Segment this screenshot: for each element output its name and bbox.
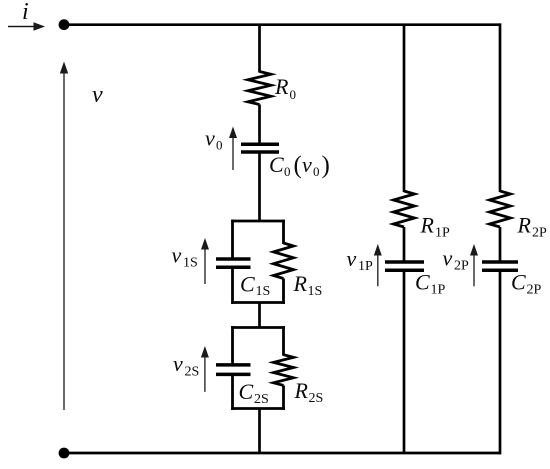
- svg-text:0: 0: [216, 138, 223, 153]
- wire: box2 left leg upper: [231, 326, 234, 364]
- node: top-left terminal: [59, 19, 70, 30]
- svg-text:1S: 1S: [183, 256, 198, 271]
- svg-text:2P: 2P: [454, 259, 469, 274]
- label R2P: [517, 213, 548, 241]
- voltage arrow v0: [229, 127, 237, 171]
- wire: box2 right leg upper: [282, 326, 285, 356]
- svg-text:1S: 1S: [256, 284, 271, 299]
- node: bottom-left terminal: [59, 448, 70, 459]
- svg-text:v: v: [347, 246, 357, 271]
- svg-text:2P: 2P: [527, 283, 542, 298]
- svg-text:v: v: [302, 152, 312, 177]
- wire: main branch top (rail to R0): [258, 25, 261, 73]
- svg-text:C: C: [240, 272, 255, 297]
- wire: R1P to C1P: [403, 227, 406, 261]
- svg-text:v: v: [173, 351, 183, 376]
- svg-text:C: C: [511, 270, 526, 295]
- wire: top rail: [64, 23, 500, 26]
- voltage arrow v2S: [201, 346, 209, 392]
- label C0(v0): [269, 152, 330, 179]
- svg-text:2S: 2S: [309, 391, 324, 406]
- svg-text:R: R: [517, 213, 532, 238]
- capacitor C0: [241, 144, 279, 152]
- svg-text:C: C: [239, 379, 254, 404]
- wire: C1P to bottom rail: [403, 270, 406, 453]
- svg-text:2S: 2S: [254, 392, 269, 407]
- capacitor C1S: [216, 259, 251, 267]
- wire: box2 right leg lower: [282, 385, 285, 410]
- label v: [92, 82, 103, 108]
- svg-text:v: v: [205, 126, 215, 151]
- svg-text:R: R: [274, 74, 289, 99]
- wire: branch 2P top (rail corner to R2P): [499, 23, 502, 192]
- voltage arrow v: [60, 62, 68, 411]
- voltage arrow v2P: [470, 244, 478, 286]
- svg-text:C: C: [415, 270, 430, 295]
- resistor R0: [248, 72, 271, 105]
- wire: box1 left leg lower: [231, 268, 234, 304]
- label R1S: [293, 271, 323, 299]
- svg-text:2P: 2P: [532, 226, 547, 241]
- wire: C0 to box1: [258, 152, 261, 221]
- wire: box2 top bar: [231, 326, 285, 329]
- wire: box1 to box2: [258, 303, 261, 328]
- label v2P: [443, 246, 470, 274]
- wire: box2 bottom bar: [231, 407, 285, 410]
- svg-text:1S: 1S: [308, 284, 323, 299]
- current arrow i: [8, 22, 45, 31]
- svg-text:R: R: [293, 271, 308, 296]
- label C1S: [240, 272, 270, 300]
- svg-text:R: R: [294, 378, 309, 403]
- resistor R1S: [274, 243, 294, 279]
- wire: box1 bottom bar: [231, 301, 285, 304]
- label v2S: [173, 351, 199, 380]
- wire: box1 left leg upper: [231, 220, 234, 258]
- resistor R2P: [490, 191, 511, 227]
- svg-text:0: 0: [313, 164, 320, 179]
- svg-text:1P: 1P: [435, 226, 450, 241]
- label C2S: [239, 379, 269, 407]
- wire: box1 right leg upper: [282, 220, 285, 244]
- label i: [22, 0, 29, 25]
- svg-text:v: v: [172, 243, 182, 268]
- svg-text:i: i: [22, 0, 29, 25]
- wire: R2P to C2P: [499, 227, 502, 261]
- label R1P: [420, 213, 451, 241]
- wire: box2 left leg lower: [231, 375, 234, 410]
- resistor R1P: [394, 191, 415, 227]
- svg-text:v: v: [92, 82, 103, 108]
- svg-text:0: 0: [290, 87, 297, 102]
- label C2P: [511, 270, 542, 298]
- voltage arrow v1S: [201, 238, 209, 284]
- svg-text:0: 0: [284, 164, 291, 179]
- svg-text:C: C: [269, 152, 284, 177]
- capacitor C2P: [482, 262, 518, 270]
- capacitor C1P: [385, 262, 424, 270]
- wire: bottom rail: [64, 452, 500, 455]
- svg-text:1P: 1P: [358, 259, 373, 274]
- wire: box2 to bottom rail: [258, 409, 261, 454]
- label R2S: [294, 378, 324, 406]
- wire: box1 right leg lower: [282, 279, 285, 304]
- svg-text:v: v: [443, 246, 453, 271]
- wire: branch 1P top (rail to R1P): [403, 25, 406, 192]
- svg-text:1P: 1P: [431, 283, 446, 298]
- wire: box1 top bar: [231, 220, 285, 223]
- wire: R0 to C0: [258, 105, 261, 143]
- voltage arrow v1P: [374, 244, 382, 286]
- svg-text:R: R: [420, 213, 435, 238]
- label R0: [274, 74, 296, 102]
- label v0: [205, 126, 223, 153]
- svg-text:): ): [322, 152, 330, 179]
- wire: C2P to bottom rail: [499, 270, 502, 454]
- label C1P: [415, 270, 446, 298]
- svg-text:2S: 2S: [185, 365, 200, 380]
- svg-text:(: (: [294, 152, 302, 179]
- capacitor C2S: [216, 365, 251, 375]
- label v1S: [172, 243, 198, 271]
- resistor R2S: [274, 355, 294, 386]
- label v1P: [347, 246, 374, 274]
